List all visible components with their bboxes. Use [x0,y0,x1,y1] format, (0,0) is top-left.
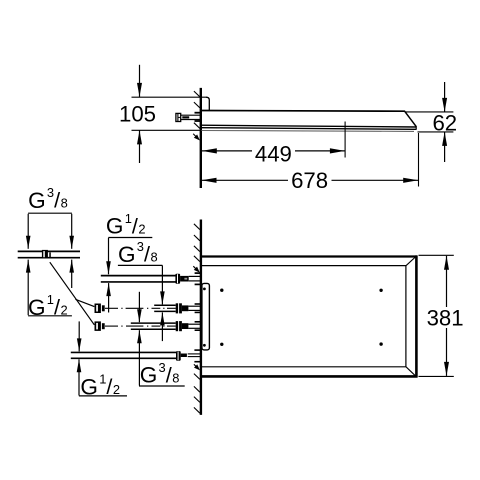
svg-text:8: 8 [172,370,179,385]
svg-text:/: / [106,374,112,399]
svg-text:3: 3 [159,360,166,375]
svg-text:8: 8 [61,196,68,211]
svg-text:3: 3 [137,239,144,254]
svg-text:1: 1 [125,211,132,226]
svg-text:/: / [166,362,172,387]
svg-text:2: 2 [138,221,145,236]
svg-text:449: 449 [255,141,292,166]
svg-text:1: 1 [47,292,54,307]
svg-text:678: 678 [291,168,328,193]
svg-text:381: 381 [427,305,464,330]
svg-text:3: 3 [47,185,54,200]
svg-text:1: 1 [99,372,106,387]
svg-text:G: G [118,242,136,267]
svg-text:/: / [132,213,138,238]
svg-text:2: 2 [113,382,120,397]
svg-text:G: G [28,188,46,213]
svg-text:105: 105 [119,101,156,126]
svg-text:G: G [140,363,158,388]
svg-text:/: / [144,242,150,267]
svg-text:62: 62 [432,111,457,136]
svg-text:8: 8 [151,250,158,265]
svg-text:G: G [106,214,124,239]
svg-text:/: / [54,188,60,213]
